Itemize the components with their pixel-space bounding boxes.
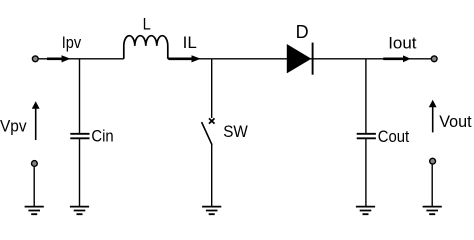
wire switch to ground — [211, 145, 213, 207]
svg-text:L: L — [143, 14, 151, 33]
wire Vpv- terminal to ground — [33, 167, 35, 207]
ground below Vpv- terminal — [25, 207, 44, 215]
svg-text:Vout: Vout — [439, 112, 472, 131]
svg-text:Cout: Cout — [378, 127, 410, 146]
node Vout output terminal — [431, 56, 437, 62]
wire Cin bottom plate to ground — [79, 138, 81, 206]
capacitor Cout top plate — [357, 133, 376, 135]
diode D cathode bar — [312, 43, 314, 75]
ground below Cout — [356, 207, 375, 215]
capacitor Cin bottom plate — [70, 137, 89, 139]
diode D anode triangle — [287, 45, 310, 73]
wire Cout bottom plate to ground — [365, 138, 367, 206]
wire inductor to SW junction — [168, 58, 212, 60]
wire Cout junction to output terminal — [366, 58, 431, 60]
current arrowhead IL — [192, 55, 201, 62]
switch SW contact x mark — [209, 118, 215, 123]
current arrowhead Iout — [403, 55, 411, 62]
inductor L — [124, 36, 168, 59]
voltage arrowhead Vout — [429, 100, 437, 108]
wire SW junction down to switch contact — [211, 59, 213, 118]
capacitor Cout bottom plate — [357, 137, 376, 139]
svg-text:SW: SW — [223, 122, 248, 141]
svg-text:Vpv: Vpv — [0, 117, 27, 136]
wire Vout- terminal to ground — [431, 164, 433, 206]
svg-text:Iout: Iout — [388, 33, 417, 52]
wire input terminal to Cin junction — [39, 58, 124, 60]
ground below SW — [202, 207, 221, 215]
ground below Vout- terminal — [423, 207, 442, 215]
svg-text:D: D — [296, 22, 309, 42]
current arrowhead Ipv — [62, 55, 71, 62]
current arrow Iout — [383, 57, 403, 60]
wire SW junction to diode anode — [212, 58, 288, 60]
current arrow IL — [169, 57, 193, 60]
svg-text:IL: IL — [183, 33, 197, 52]
wire Cout junction down to capacitor — [365, 59, 367, 134]
junction Cin node — [79, 59, 81, 134]
capacitor Cin top plate — [70, 133, 89, 135]
node Vout- lower terminal — [430, 158, 436, 164]
node PV+ input terminal — [32, 56, 38, 62]
voltage arrow Vout shaft — [432, 106, 434, 132]
svg-text:Cin: Cin — [91, 126, 113, 145]
current arrow Ipv — [47, 57, 62, 60]
wire diode cathode to Cout junction — [310, 58, 366, 60]
ground below Cin — [70, 207, 89, 215]
voltage arrow Vpv shaft — [35, 108, 37, 141]
switch SW blade — [202, 122, 212, 145]
node Vpv- lower terminal — [32, 161, 38, 167]
voltage arrowhead Vpv — [32, 101, 40, 109]
svg-text:Ipv: Ipv — [62, 33, 82, 52]
